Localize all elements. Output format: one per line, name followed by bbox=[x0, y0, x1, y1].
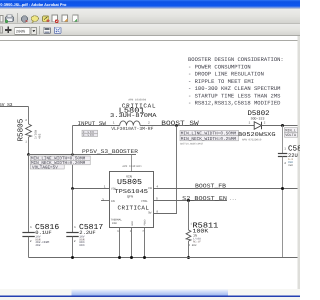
globe icon bbox=[21, 16, 27, 22]
svg-text:3.3UH-870MA: 3.3UH-870MA bbox=[110, 112, 157, 119]
svg-text:1: 1 bbox=[104, 185, 106, 188]
wire R5805 bottom lead bbox=[28, 137, 30, 155]
sticky note icon bbox=[31, 16, 38, 22]
label 0.5MM boxes bbox=[82, 130, 98, 136]
wire ground rail bbox=[29, 257, 298, 259]
wire VIN top stub bbox=[131, 155, 133, 172]
svg-text:2: 2 bbox=[284, 162, 286, 165]
page + red badge bbox=[52, 15, 57, 22]
svg-text:VIN: VIN bbox=[126, 175, 132, 179]
svg-text:VLF3010AT-3M-RF: VLF3010AT-3M-RF bbox=[111, 126, 153, 132]
wire U5805 ground stub 2 bbox=[131, 228, 133, 258]
wire diode output bbox=[262, 125, 298, 127]
wire INPUT_SW to inductor bbox=[73, 125, 120, 127]
svg-text:VIN: VIN bbox=[111, 187, 116, 190]
title bar bbox=[0, 0, 300, 9]
svg-text:SWITCH_NODE=3MHZ: SWITCH_NODE=3MHZ bbox=[180, 142, 204, 145]
svg-text:PAD: PAD bbox=[112, 222, 117, 225]
svg-text:1: 1 bbox=[30, 226, 32, 229]
svg-text:1: 1 bbox=[249, 122, 251, 125]
svg-text:PGND: PGND bbox=[143, 219, 146, 226]
svg-text:0.5MM: 0.5MM bbox=[83, 134, 95, 137]
scrollbar thumb bbox=[72, 289, 229, 295]
label MIN_LINE box right edge bbox=[285, 128, 298, 139]
node BOOST_FB junction bbox=[281, 187, 284, 190]
IC U5805 bbox=[110, 165, 154, 228]
resistor R5811 bbox=[186, 222, 219, 247]
svg-text:SOD-323: SOD-323 bbox=[251, 116, 265, 120]
inductor L5801 bbox=[110, 99, 157, 132]
svg-text:2: 2 bbox=[30, 240, 32, 243]
wire U5805 ground stub 3 bbox=[144, 228, 146, 258]
svg-text:- RIPPLE TO MEET EMI: - RIPPLE TO MEET EMI bbox=[188, 78, 254, 85]
svg-text:2: 2 bbox=[74, 240, 76, 243]
svg-text:CER: CER bbox=[288, 164, 293, 167]
svg-text:FB: FB bbox=[148, 187, 152, 190]
printer icon bbox=[6, 17, 14, 22]
svg-text:APN 0752D010: APN 0752D010 bbox=[242, 139, 262, 142]
pin 4 FB bbox=[148, 185, 158, 190]
diode D5802 bbox=[238, 110, 276, 141]
node BOOST_SW junction bbox=[175, 124, 178, 127]
svg-text:VOLTA: VOLTA bbox=[285, 133, 297, 138]
svg-text:APN 10381401: APN 10381401 bbox=[122, 165, 142, 168]
svg-text:SW: SW bbox=[148, 211, 152, 214]
wire BOOST_FB bbox=[154, 188, 298, 190]
svg-text:2: 2 bbox=[264, 122, 266, 125]
svg-text:402: 402 bbox=[35, 244, 40, 247]
svg-text:EN: EN bbox=[111, 200, 115, 203]
wire INPUT_SW vertical bbox=[72, 126, 74, 189]
svg-text:402: 402 bbox=[192, 244, 197, 247]
bottom blue line bbox=[0, 295, 300, 297]
svg-text:1: 1 bbox=[74, 226, 76, 229]
node C5817 ground junction bbox=[71, 256, 74, 259]
label MIN_LINE box bottom left bbox=[30, 156, 90, 170]
resistor R5805 bbox=[17, 118, 42, 143]
net PP5V_S3 label bbox=[0, 102, 13, 108]
label MIN_LINE box switch node bbox=[180, 130, 239, 145]
svg-text:BOOSTER DESIGN CONSIDERATION:: BOOSTER DESIGN CONSIDERATION: bbox=[188, 56, 284, 63]
svg-text:- DROOP LINE REGULATION: - DROOP LINE REGULATION bbox=[188, 71, 264, 78]
horizontal scrollbar bbox=[0, 289, 300, 296]
svg-text:S2_BOOST_EN: S2_BOOST_EN bbox=[182, 195, 227, 202]
svg-text:1/16W: 1/16W bbox=[34, 130, 38, 139]
pin 1 VIN bbox=[73, 185, 117, 190]
capacitor C5816 bbox=[22, 155, 59, 258]
icon partial left bbox=[0, 16, 3, 23]
node S2_BOOST_EN junction bbox=[187, 199, 190, 202]
svg-text:RC:1F: RC:1F bbox=[193, 240, 201, 243]
separator bbox=[17, 13, 19, 23]
row2 controls bbox=[0, 26, 61, 35]
fit icon bbox=[54, 27, 61, 33]
pin 3 EN bbox=[101, 198, 115, 203]
svg-text:8: 8 bbox=[156, 210, 158, 213]
svg-text:1: 1 bbox=[113, 121, 115, 124]
svg-text:603: 603 bbox=[79, 244, 84, 247]
svg-text:- RS812,RS813,C5818 MODIFIED: - RS812,RS813,C5818 MODIFIED bbox=[188, 100, 281, 107]
node PP5V_S3_BOOSTER junction bbox=[27, 153, 30, 156]
svg-text:MIN_NECK_WIDTH=0.25MM: MIN_NECK_WIDTH=0.25MM bbox=[181, 137, 237, 142]
svg-text:0-3950.JSL.pdf - Adobe Acrobat: 0-3950.JSL.pdf - Adobe Acrobat Pro bbox=[0, 2, 67, 7]
svg-text:PP5V_S3: PP5V_S3 bbox=[0, 102, 13, 108]
capacitor C5817 bbox=[66, 189, 103, 258]
row1 icons bbox=[0, 13, 78, 23]
note BOOSTER DESIGN CONSIDERATION bbox=[188, 56, 284, 107]
svg-text:BOOST_FB: BOOST_FB bbox=[195, 183, 227, 190]
svg-text:1: 1 bbox=[284, 148, 286, 151]
page + orange corner bbox=[62, 15, 67, 22]
wire BOOST_SW bbox=[140, 125, 254, 127]
svg-text:5: 5 bbox=[156, 198, 158, 201]
svg-text:QFN: QFN bbox=[127, 194, 133, 198]
node ground junction 3 bbox=[143, 256, 146, 259]
scroll-mode icon bbox=[44, 27, 51, 33]
pin 8 SW wire bbox=[148, 126, 177, 215]
pin 5 CTRL bbox=[141, 198, 227, 203]
svg-text:MIN_L: MIN_L bbox=[285, 128, 296, 133]
wire PP5V_S3 horizontal bbox=[0, 106, 29, 108]
toolbar row 2 bbox=[0, 24, 300, 36]
svg-text:VOLTAGE=5V: VOLTAGE=5V bbox=[32, 165, 58, 170]
node ground junction 1 bbox=[118, 256, 121, 259]
wire R5811 top lead bbox=[188, 201, 190, 231]
toolbar row 1 bbox=[0, 9, 300, 23]
page top edge line bbox=[0, 40, 300, 42]
document area bbox=[0, 36, 300, 289]
right scrollbar sliver bbox=[298, 36, 301, 289]
svg-text:GND: GND bbox=[131, 220, 134, 225]
svg-text:CTRL: CTRL bbox=[141, 200, 148, 203]
svg-text:PP5V_S3_BOOSTER: PP5V_S3_BOOSTER bbox=[82, 148, 139, 155]
svg-text:3: 3 bbox=[102, 198, 104, 201]
svg-text:...: ... bbox=[229, 197, 237, 202]
wire U5805 ground stub 1 bbox=[119, 228, 121, 258]
svg-text:4: 4 bbox=[156, 185, 158, 188]
highlight icon bbox=[43, 16, 49, 22]
svg-text:CRITICAL: CRITICAL bbox=[118, 205, 150, 212]
node diode output junction bbox=[281, 124, 284, 127]
svg-text:B0520WSXG: B0520WSXG bbox=[238, 131, 276, 138]
svg-text:APN 1010904: APN 1010904 bbox=[128, 99, 146, 102]
wire PP5V_S3_BOOSTER bbox=[29, 154, 137, 156]
svg-text:- POWER CONSUMPTION: - POWER CONSUMPTION bbox=[188, 63, 251, 70]
wire R5811 bottom lead bbox=[188, 241, 190, 258]
node VIN junction bbox=[71, 187, 74, 190]
svg-text:2: 2 bbox=[148, 121, 150, 124]
svg-text:- STARTUP TIME LESS THAN 2MS: - STARTUP TIME LESS THAN 2MS bbox=[188, 92, 281, 99]
svg-text:R5805: R5805 bbox=[17, 118, 26, 141]
node INPUT_SW vertical junction bbox=[71, 153, 73, 155]
svg-text:- 100-300 KHZ CLEAN SPECTRUM: - 100-300 KHZ CLEAN SPECTRUM bbox=[188, 85, 280, 92]
node R5811 ground junction bbox=[187, 256, 190, 259]
svg-text:402: 402 bbox=[39, 133, 42, 139]
page + green arrow bbox=[73, 15, 78, 22]
svg-text:U5805: U5805 bbox=[117, 178, 142, 187]
svg-text:BOOST_SW: BOOST_SW bbox=[161, 120, 198, 127]
svg-text:200%: 200% bbox=[16, 30, 26, 35]
capacitor C5815 bbox=[278, 126, 302, 258]
wire R5805 top lead bbox=[28, 107, 30, 125]
node ground junction 2 bbox=[130, 256, 133, 259]
